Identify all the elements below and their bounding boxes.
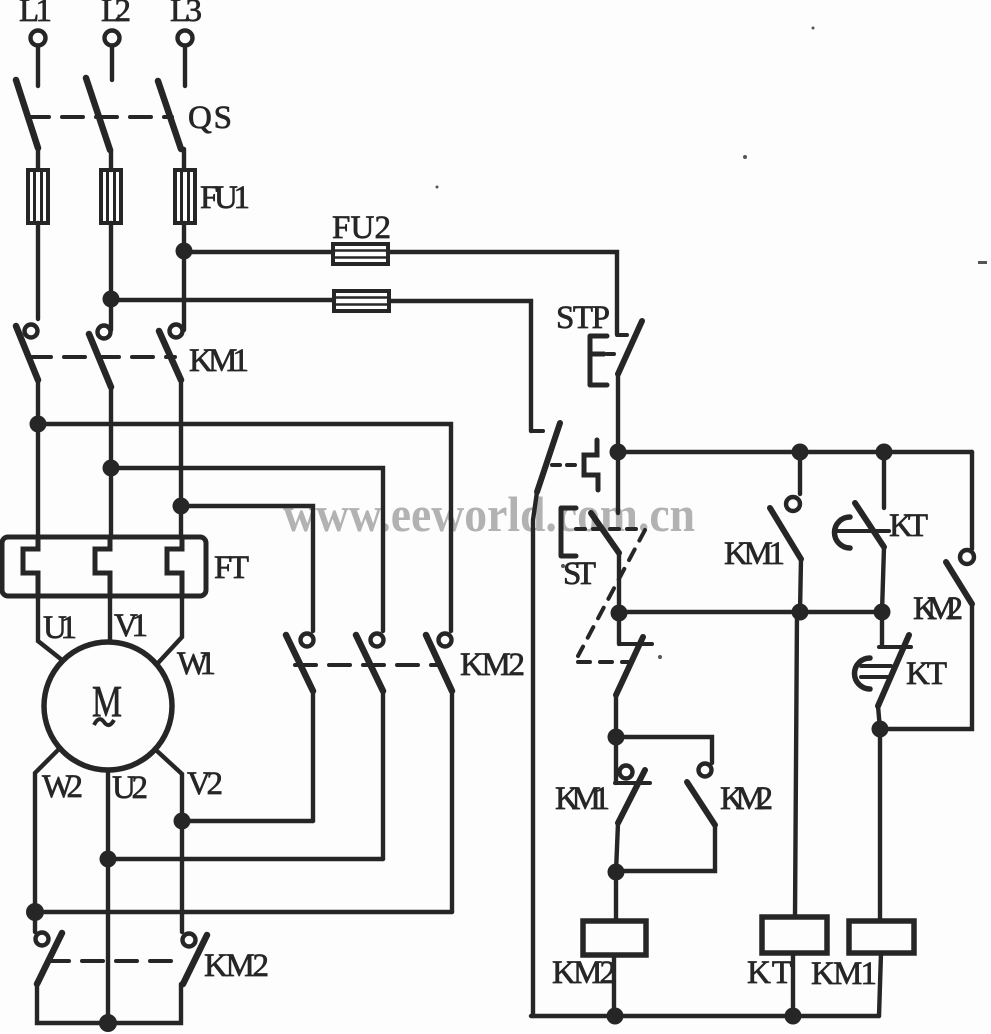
svg-text:KT: KT (906, 656, 947, 692)
svg-text:W2: W2 (42, 769, 83, 805)
svg-text:KT: KT (889, 508, 928, 544)
svg-text:STP: STP (556, 300, 610, 336)
svg-text:W1: W1 (177, 646, 216, 682)
svg-text:L2: L2 (101, 0, 131, 29)
svg-text:QS: QS (188, 100, 232, 136)
svg-text:www.eeworld.com.cn: www.eeworld.com.cn (283, 486, 695, 542)
svg-text:FT: FT (214, 550, 249, 586)
svg-text:KM2: KM2 (913, 591, 963, 627)
svg-text:KM2: KM2 (460, 647, 525, 683)
svg-text:KM2: KM2 (720, 781, 773, 817)
svg-text:ST: ST (563, 556, 596, 592)
svg-text:L1: L1 (19, 0, 52, 29)
svg-text:KM1: KM1 (811, 956, 877, 992)
svg-text:KM1: KM1 (555, 781, 610, 817)
svg-text:KM1: KM1 (189, 343, 249, 379)
svg-text:FU1: FU1 (200, 180, 250, 216)
svg-text:KT: KT (747, 955, 792, 991)
svg-text:V1: V1 (114, 608, 148, 644)
svg-text:KM2: KM2 (552, 955, 616, 991)
svg-text:FU2: FU2 (332, 210, 391, 246)
svg-text:U2: U2 (112, 770, 148, 806)
svg-text:KM2: KM2 (204, 948, 269, 984)
svg-text:V2: V2 (187, 766, 223, 802)
svg-text:KM1: KM1 (724, 536, 785, 572)
svg-text:U1: U1 (43, 610, 77, 646)
svg-text:L3: L3 (170, 0, 202, 29)
